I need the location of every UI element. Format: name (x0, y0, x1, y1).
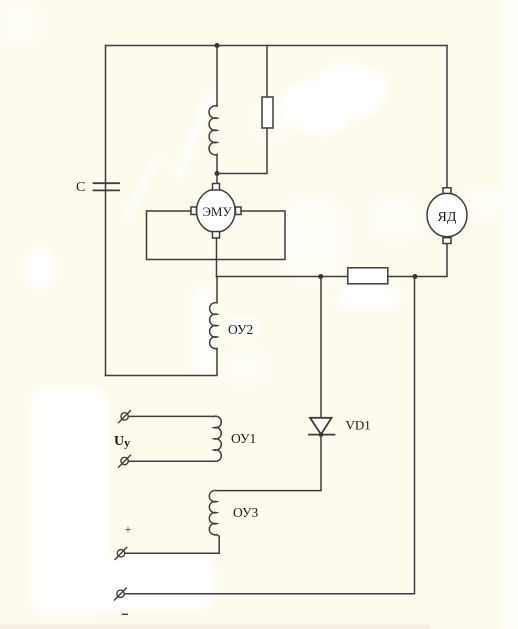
wire: motor top feed (446, 46, 448, 188)
wire: center vertical from top bus to inductor (216, 46, 218, 107)
motor M: YaD armature (427, 188, 467, 244)
inductor OU3 winding (125, 490, 219, 553)
wire: junction to EMU top brush (216, 174, 218, 184)
inductor OU2 winding (106, 277, 218, 376)
wire: left vertical branch (capacitor branch) (105, 46, 107, 376)
inductor (upper winding) (209, 106, 217, 155)
wire: Uy lower lead (128, 460, 214, 462)
minus sign (123, 613, 128, 615)
svg-text:ЭМУ: ЭМУ (202, 204, 232, 219)
node: bus left junction (318, 274, 323, 279)
svg-text:+: + (125, 524, 132, 536)
node: junction above EMU (215, 171, 220, 176)
resistor R (top, vertical) (262, 97, 273, 128)
svg-text:C: C (76, 180, 85, 195)
wire: top horizontal bus (106, 45, 448, 47)
svg-text:ОУ1: ОУ1 (231, 431, 256, 446)
wire: resistor branch vertical (top) (266, 46, 268, 98)
node: junction top of EMU (215, 43, 220, 48)
svg-text:ОУ2: ОУ2 (228, 322, 253, 337)
node: bus right junction (413, 274, 418, 279)
wire: main middle bus (217, 276, 348, 278)
terminal: Uy upper (119, 411, 131, 423)
capacitor C plates (94, 183, 120, 190)
wire: resistor bottom down and left to junction (217, 128, 267, 174)
svg-text:VD1: VD1 (346, 418, 371, 433)
wire: bottom return line (124, 277, 414, 594)
wire: diode to OU3 top (217, 435, 322, 491)
wire: diode branch down from bus (320, 277, 322, 418)
wire: EMU compensation loop (147, 211, 286, 260)
wire: EMU bottom brush down to main bus (216, 238, 218, 277)
op-amp U1: EMU amplifier machine (191, 184, 241, 239)
inductor OU1 winding (214, 416, 221, 461)
svg-text:ОУ3: ОУ3 (233, 505, 259, 520)
resistor R2 (middle, horizontal) (348, 268, 388, 284)
wire: bus right of resistor, up to motor (388, 244, 447, 277)
svg-text:ЯД: ЯД (438, 210, 457, 225)
diode VD1 (309, 418, 335, 435)
svg-text:Uy: Uy (114, 434, 130, 450)
terminal: Uy lower (119, 455, 131, 467)
node: diode cathode junction (319, 432, 324, 437)
terminal: plus supply (115, 547, 127, 559)
terminal: minus supply (115, 588, 127, 600)
wire: Uy upper lead (128, 415, 214, 417)
wire: inductor bottom to node (216, 155, 218, 174)
